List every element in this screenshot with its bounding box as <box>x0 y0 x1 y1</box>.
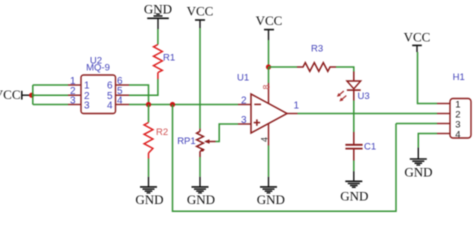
sensor U2 MQ-9 body <box>81 56 116 114</box>
wire U2 pin5 to R1 <box>129 79 158 95</box>
pin 3 of H1 <box>437 120 460 131</box>
pin 6 of U2 <box>107 76 129 92</box>
node VCC-left junction <box>29 93 34 98</box>
svg-text:3: 3 <box>84 100 90 111</box>
svg-text:VCC: VCC <box>256 13 283 28</box>
wire H1 pin4 to ground <box>418 134 437 148</box>
svg-text:4: 4 <box>117 96 123 107</box>
svg-text:H1: H1 <box>453 72 465 83</box>
svg-text:8: 8 <box>262 84 272 89</box>
pin 3 of U2 <box>68 96 90 112</box>
svg-text:1: 1 <box>294 101 300 112</box>
wire junction to R3 <box>269 66 298 68</box>
svg-text:U3: U3 <box>358 91 370 102</box>
ground under RP1 <box>187 177 215 207</box>
svg-text:RP1: RP1 <box>177 136 195 147</box>
node junction at R2 top <box>146 102 151 107</box>
capacitor C1 <box>345 132 376 161</box>
pin 3 of U1 <box>238 115 251 126</box>
svg-text:4: 4 <box>107 100 113 111</box>
wire main net U2 pin4 to op-amp <box>129 104 238 106</box>
wire junction to U1 pin 8 <box>268 67 270 83</box>
op-amp U1 <box>237 72 287 133</box>
svg-text:3: 3 <box>70 96 76 107</box>
svg-text:R3: R3 <box>311 43 323 54</box>
svg-text:GND: GND <box>404 164 432 179</box>
svg-text:GND: GND <box>135 192 163 207</box>
svg-text:3: 3 <box>241 115 247 126</box>
pin 1 (output) of U1 <box>287 101 300 114</box>
svg-text:2: 2 <box>241 95 247 106</box>
svg-text:GND: GND <box>187 192 215 207</box>
wire RP1 to ground <box>199 157 201 177</box>
ground under R2 <box>135 177 163 207</box>
power port VCC (above op-amp) <box>256 13 283 40</box>
wire R3 to LED <box>336 67 354 72</box>
node junction at feedback loop <box>170 102 175 107</box>
wire VCC right to H1 pin 1 <box>418 52 438 104</box>
ground under C1 <box>340 171 368 204</box>
pin 1 of H1 <box>437 100 460 111</box>
wire RP1 wiper to op-amp pin 3 <box>216 124 239 142</box>
svg-text:R2: R2 <box>156 127 168 138</box>
header H1 body <box>450 72 471 138</box>
potentiometer RP1 <box>177 129 215 157</box>
wire H1 pin3 horizontal <box>396 123 437 125</box>
wire U2 pin6 down to main node <box>129 85 149 105</box>
resistor R3 <box>297 43 336 71</box>
wire feedback loop (node to H1 pin3) <box>173 105 397 212</box>
pin 4 of U1 <box>260 124 270 146</box>
pin 4 of U2 <box>107 96 129 112</box>
wire VCC down to RP1 (crosses main wire) <box>199 28 201 129</box>
wire C1 to ground <box>353 161 355 172</box>
wire GND to R1 <box>157 29 159 45</box>
pin 2 of U1 <box>238 95 251 106</box>
svg-text:VCC: VCC <box>187 4 214 19</box>
pin 1 of U2 <box>68 76 90 92</box>
wire R2 to ground <box>148 159 150 177</box>
wire main node down to R2 <box>148 105 150 123</box>
svg-text:VCC: VCC <box>404 30 431 45</box>
power port VCC (top middle) <box>187 4 214 28</box>
ground under op-amp <box>257 177 285 207</box>
pin 2 of H1 <box>437 110 460 121</box>
pin 5 of U2 <box>107 86 129 102</box>
pin 8 of U1 <box>262 83 272 104</box>
resistor R2 <box>144 123 168 159</box>
wire to U2 pin 1 <box>33 84 68 86</box>
svg-text:VCC: VCC <box>0 87 21 102</box>
power port GND (top, above R1) <box>144 2 172 29</box>
wire LED cathode down through output net to C1 <box>353 101 355 133</box>
svg-text:4: 4 <box>260 137 270 142</box>
power port VCC (left) <box>0 87 30 102</box>
svg-text:U1: U1 <box>237 72 249 83</box>
svg-text:GND: GND <box>340 189 368 204</box>
wire U1 pin4 to ground <box>268 146 270 177</box>
svg-text:C1: C1 <box>364 141 376 152</box>
svg-text:GND: GND <box>257 192 285 207</box>
wire VCC-left vertical bus <box>32 85 34 105</box>
wire VCC to junction <box>268 40 270 67</box>
LED U3 <box>337 72 370 103</box>
svg-text:4: 4 <box>455 129 460 140</box>
resistor R1 <box>154 45 176 80</box>
node junction above op-amp <box>266 64 271 69</box>
power port VCC (right) <box>404 30 431 52</box>
svg-text:MQ-9: MQ-9 <box>86 62 110 73</box>
pin 4 of H1 <box>437 129 460 140</box>
pin 2 of U2 <box>68 86 90 102</box>
ground under H1 <box>404 148 432 180</box>
svg-text:R1: R1 <box>163 52 175 63</box>
wire to U2 pin 3 <box>33 104 68 106</box>
wire op-amp output to H1 pin 2 <box>298 113 438 115</box>
wire to U2 pin 2 <box>32 94 68 96</box>
